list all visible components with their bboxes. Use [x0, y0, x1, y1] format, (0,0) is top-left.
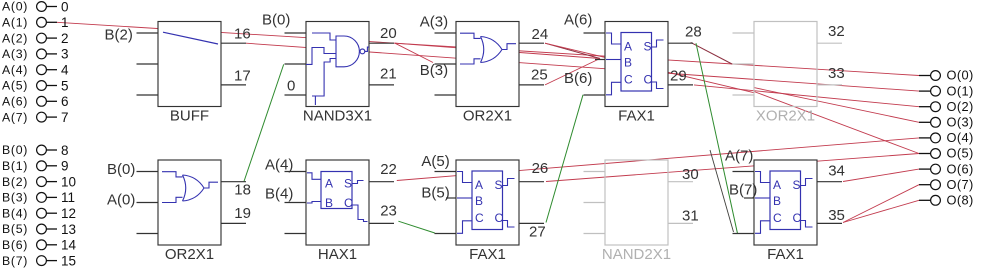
svg-text:17: 17: [234, 67, 251, 84]
svg-text:34: 34: [828, 163, 845, 180]
G7 pin lead B: [307, 202, 321, 204]
G7 input stub 2: [285, 202, 307, 204]
svg-text:B(7): B(7): [2, 254, 28, 268]
wire net 20 to FAX1 input B: [395, 43, 600, 58]
G2 input stub 2: [285, 63, 307, 65]
G7 pin lead C out: [352, 205, 368, 222]
G6 OR input lead 2: [162, 197, 183, 202]
svg-text:28: 28: [685, 24, 702, 41]
wire net 24 to FAX1 input B: [545, 43, 600, 58]
svg-text:A(4): A(4): [265, 157, 293, 174]
svg-text:C: C: [495, 211, 504, 225]
svg-text:B(1): B(1): [2, 159, 28, 173]
svg-text:14: 14: [61, 238, 77, 253]
svg-text:C: C: [344, 196, 353, 210]
G9 input stub 3: [584, 233, 606, 235]
wire net 25 to FAX1 input B: [545, 59, 600, 85]
G10 pin lead C in: [755, 221, 770, 234]
svg-text:C: C: [475, 211, 484, 225]
svg-text:O(8): O(8): [947, 193, 974, 208]
svg-text:A(5): A(5): [421, 153, 449, 170]
wire net 29 to O(2): [694, 85, 919, 107]
G2 NAND input lead 3: [312, 59, 336, 97]
cell box HAX1: [306, 160, 369, 245]
wire junction to O(3): [754, 88, 919, 123]
svg-text:A(1): A(1): [2, 16, 28, 30]
G10 pin lead B: [755, 197, 770, 199]
svg-text:O(3): O(3): [947, 115, 974, 130]
G7 pin lead A: [307, 173, 321, 180]
wire net 28 to XOR2X1 input B: [691, 42, 732, 64]
G3 input stub 3: [435, 94, 457, 96]
svg-text:8: 8: [61, 143, 69, 158]
svg-text:O(2): O(2): [947, 99, 974, 114]
svg-text:26: 26: [532, 160, 549, 177]
output pin O(4): [919, 137, 931, 139]
svg-text:7: 7: [61, 110, 69, 125]
G10 pin lead A: [755, 172, 770, 183]
G6 OR output lead: [204, 182, 218, 188]
svg-text:B: B: [475, 194, 483, 208]
svg-text:A: A: [624, 39, 632, 53]
G2 input stub 1: [285, 32, 307, 34]
svg-text:A: A: [475, 178, 483, 192]
G6 output stub 2: [221, 222, 246, 224]
G5 output stub 2: [817, 84, 842, 86]
svg-text:15: 15: [61, 253, 76, 268]
svg-text:O(1): O(1): [947, 83, 974, 98]
svg-text:S: S: [344, 177, 352, 191]
svg-text:FAX1: FAX1: [469, 246, 506, 263]
G5 output stub 1: [817, 42, 842, 44]
svg-text:0: 0: [61, 0, 69, 14]
cell box NAND2X1: [605, 160, 668, 245]
G1 output stub 2: [221, 84, 246, 86]
svg-text:9: 9: [61, 159, 69, 174]
G1 input stub 1: [137, 32, 159, 34]
wire net 18 to NAND3X1 input (green): [244, 64, 284, 181]
svg-text:33: 33: [828, 65, 845, 82]
G4 pin lead S out: [652, 40, 664, 47]
svg-text:S: S: [644, 39, 652, 53]
G4 pin lead C out: [652, 82, 664, 89]
svg-text:A: A: [773, 178, 781, 192]
output pin O(2): [919, 106, 931, 108]
output pin O(0): [919, 75, 931, 77]
svg-text:30: 30: [682, 166, 699, 183]
G3 OR output lead: [502, 44, 516, 50]
output pin O(3): [919, 121, 931, 123]
svg-text:A(3): A(3): [2, 47, 28, 61]
G1 output stub 1: [221, 42, 246, 44]
G6 OR input lead 1: [162, 172, 183, 177]
output pin O(1): [919, 90, 931, 92]
svg-text:A(6): A(6): [564, 12, 592, 29]
svg-text:FAX1: FAX1: [618, 107, 655, 124]
G3 OR gate body back arc: [481, 37, 484, 63]
G7 pin lead S out: [352, 181, 364, 184]
G4 pin lead B: [606, 59, 621, 61]
svg-text:O(5): O(5): [947, 146, 974, 161]
G6 output stub 1: [221, 181, 246, 183]
wire net 34 to O(6): [843, 169, 919, 181]
svg-text:16: 16: [234, 26, 251, 43]
wire net 24 to XOR2X1 input: [545, 43, 754, 92]
svg-text:B(5): B(5): [2, 222, 28, 236]
cell box XOR2X1: [754, 22, 817, 107]
G6 input stub 1: [137, 171, 159, 173]
svg-text:0: 0: [287, 78, 295, 95]
G2 NAND gate D body: [336, 36, 359, 67]
svg-text:22: 22: [380, 161, 397, 178]
G10 input stub 2 (short): [744, 197, 754, 199]
G3 OR input lead 2: [460, 59, 481, 64]
svg-text:O(7): O(7): [947, 177, 974, 192]
G8 pin lead B: [457, 197, 472, 199]
output pin O(8): [919, 199, 931, 201]
G2 NAND input lead 1: [312, 33, 336, 40]
svg-text:B: B: [773, 194, 781, 208]
G8 output stub 2: [519, 222, 544, 224]
svg-text:BUFF: BUFF: [170, 107, 209, 124]
svg-text:29: 29: [670, 68, 687, 85]
wire junction to O(5): [754, 92, 919, 154]
svg-text:27: 27: [529, 224, 546, 241]
svg-text:B(7): B(7): [729, 182, 757, 199]
cell box FAX1: [754, 160, 817, 245]
G3 OR input lead 1: [460, 33, 481, 38]
svg-text:18: 18: [234, 182, 251, 199]
G7 output stub 1: [369, 181, 394, 183]
svg-text:A(3): A(3): [420, 14, 448, 31]
wire net 35 to O(8): [843, 200, 919, 222]
svg-text:3: 3: [61, 47, 69, 62]
wire net 22 to O(4): [397, 138, 919, 181]
svg-text:B(4): B(4): [265, 186, 293, 203]
svg-text:11: 11: [61, 190, 75, 205]
G7 input stub 3: [285, 233, 307, 235]
svg-text:24: 24: [532, 26, 549, 43]
svg-text:23: 23: [380, 202, 397, 219]
G4 output stub 2: [668, 84, 693, 86]
wire net 23 to FAX1 carry input (green): [398, 221, 434, 233]
G1 input stub 2: [137, 63, 159, 65]
svg-text:A(4): A(4): [2, 63, 28, 77]
G5 input stub 3: [733, 94, 755, 96]
G4 input stub 2 (short): [595, 59, 605, 61]
svg-text:25: 25: [531, 67, 548, 84]
G10 FAX1 internal symbol box: [770, 171, 801, 230]
svg-text:B: B: [325, 196, 333, 210]
G8 pin lead C in: [457, 221, 472, 234]
svg-text:C: C: [624, 72, 633, 86]
G8 FAX1 internal symbol box: [472, 171, 503, 230]
output pin O(7): [919, 184, 931, 186]
G8 pin lead S out: [503, 179, 515, 186]
svg-text:5: 5: [61, 78, 69, 93]
G10 input stub 3: [733, 233, 755, 235]
G2 input stub 3: [285, 94, 307, 96]
svg-text:A(2): A(2): [2, 31, 28, 45]
svg-text:S: S: [495, 178, 503, 192]
cell box BUFF: [158, 22, 221, 107]
svg-text:OR2X1: OR2X1: [165, 246, 214, 263]
G2 NAND output lead: [365, 47, 369, 51]
svg-text:A(7): A(7): [725, 148, 753, 165]
svg-text:21: 21: [380, 65, 397, 82]
G7 input stub 1: [285, 171, 307, 173]
G8 pin lead A: [457, 172, 472, 183]
svg-text:A(6): A(6): [2, 95, 28, 109]
G4 input stub 1: [584, 32, 606, 34]
cell box OR2X1: [456, 22, 519, 107]
svg-text:B(3): B(3): [420, 62, 448, 79]
wire net 27 to FAX1 carry input (green): [546, 95, 583, 223]
G5 input stub 2: [733, 63, 755, 65]
G3 input stub 1: [435, 32, 457, 34]
G2 output stub 2: [369, 84, 394, 86]
svg-text:HAX1: HAX1: [318, 246, 357, 263]
G10 output stub 2: [817, 222, 842, 224]
svg-text:19: 19: [234, 205, 251, 222]
svg-text:OR2X1: OR2X1: [463, 107, 512, 124]
G5 input stub 1: [733, 32, 755, 34]
svg-text:B(0): B(0): [107, 161, 135, 178]
svg-text:B(6): B(6): [564, 70, 592, 87]
G6 OR gate body curves: [183, 175, 205, 201]
svg-text:B(5): B(5): [421, 184, 449, 201]
G2 output stub 1: [369, 42, 394, 44]
G3 OR gate body curves: [481, 37, 503, 63]
G4 input stub 3: [584, 94, 606, 96]
svg-text:C: C: [793, 211, 802, 225]
G9 input stub 1: [584, 171, 606, 173]
G6 input stub 2: [137, 202, 159, 204]
G3 output stub 1: [519, 42, 544, 44]
G6 OR gate body back arc: [183, 175, 186, 201]
svg-text:B(4): B(4): [2, 206, 28, 220]
G4 pin lead C in: [606, 82, 621, 95]
G3 output stub 2: [519, 84, 544, 86]
output pin O(5): [919, 153, 931, 155]
svg-text:32: 32: [828, 23, 845, 40]
svg-text:6: 6: [61, 94, 69, 109]
svg-text:XOR2X1: XOR2X1: [756, 107, 815, 124]
G9 output stub 1: [668, 181, 693, 183]
svg-text:A: A: [325, 177, 333, 191]
svg-text:O(0): O(0): [947, 68, 974, 83]
svg-text:A(5): A(5): [2, 79, 28, 93]
svg-text:C: C: [644, 72, 653, 86]
wire net 20 to OR2X1 input B(3): [395, 43, 433, 62]
svg-text:20: 20: [380, 25, 397, 42]
wire net 28 to FAX1 carry input (green): [696, 43, 738, 233]
G1 BUFF internal connection line: [163, 32, 218, 44]
G10 output stub 1: [817, 181, 842, 183]
wire net 35 to O(7): [843, 185, 919, 223]
wire net 16 to O(1): [246, 43, 919, 91]
svg-text:FAX1: FAX1: [767, 246, 804, 263]
G8 input stub 2 (short): [446, 197, 456, 199]
svg-text:B(6): B(6): [2, 238, 28, 252]
G10 input stub 1: [733, 171, 755, 173]
svg-text:31: 31: [682, 207, 699, 224]
G2 NAND stub lead down: [314, 96, 316, 105]
cell box FAX1: [456, 160, 519, 245]
G4 FAX1 internal symbol box: [621, 33, 652, 92]
svg-text:1: 1: [61, 15, 69, 30]
wire into FAX1 carry input (dark): [710, 150, 734, 232]
svg-text:O(6): O(6): [947, 161, 974, 176]
G1 input stub 3: [137, 94, 159, 96]
svg-text:10: 10: [61, 174, 76, 189]
svg-text:B(0): B(0): [2, 143, 28, 157]
output pin O(6): [919, 168, 931, 170]
svg-text:35: 35: [828, 207, 845, 224]
G8 input stub 3: [435, 233, 457, 235]
G7 output stub 2: [369, 222, 394, 224]
svg-text:C: C: [773, 211, 782, 225]
svg-text:13: 13: [61, 222, 76, 237]
svg-text:2: 2: [61, 31, 69, 46]
svg-text:O(4): O(4): [947, 130, 974, 145]
svg-text:A(0): A(0): [107, 192, 135, 209]
G10 pin lead C out: [801, 221, 813, 228]
G8 pin lead C out: [503, 221, 515, 228]
G8 input stub 1: [435, 171, 457, 173]
svg-text:B(2): B(2): [105, 26, 133, 43]
svg-text:12: 12: [61, 206, 76, 221]
G10 pin lead S out: [801, 179, 813, 186]
svg-text:NAND2X1: NAND2X1: [602, 246, 671, 263]
G7 HAX1 internal symbol box: [321, 172, 352, 209]
cell box OR2X1: [158, 160, 221, 245]
cell box NAND3X1: [306, 22, 369, 107]
svg-text:A(7): A(7): [2, 110, 28, 124]
G3 input stub 2: [435, 63, 457, 65]
cell box FAX1: [605, 22, 668, 107]
svg-text:B: B: [624, 55, 632, 69]
G2 NAND input lead 2: [306, 48, 336, 65]
G8 output stub 1: [519, 181, 544, 183]
G6 input stub 3: [137, 233, 159, 235]
svg-text:4: 4: [61, 63, 69, 78]
svg-text:S: S: [793, 178, 801, 192]
svg-text:A(0): A(0): [2, 0, 28, 14]
G4 output stub 1: [668, 42, 693, 44]
svg-text:B(2): B(2): [2, 175, 28, 189]
wire net 26 to O(5): [546, 154, 919, 182]
G9 output stub 2: [668, 222, 693, 224]
G4 pin lead A: [606, 33, 621, 44]
svg-text:B(0): B(0): [262, 12, 290, 29]
wire net A(1) to O(0): [57, 22, 919, 75]
svg-text:B(3): B(3): [2, 191, 28, 205]
svg-text:NAND3X1: NAND3X1: [303, 107, 372, 124]
G9 input stub 2: [584, 202, 606, 204]
